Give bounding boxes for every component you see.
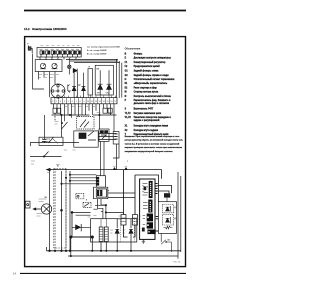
switch box S4 xyxy=(83,202,91,207)
fuse F xyxy=(29,46,33,54)
pin strip 1 xyxy=(149,181,152,197)
svg-text:Дистанция контроля аппаратуры: Дистанция контроля аппаратуры xyxy=(134,58,171,60)
switch box S5 xyxy=(76,194,84,199)
svg-text:2: 2 xyxy=(56,101,57,103)
svg-text:Предохранители цепей: Предохранители цепей xyxy=(134,65,161,68)
connector S2 xyxy=(103,108,107,113)
svg-text:VT2: VT2 xyxy=(106,93,109,95)
diode VD7 xyxy=(73,69,77,73)
svg-text:Д2: Д2 xyxy=(78,85,80,87)
svg-text:Задний фонарь справа и сзади: Задний фонарь справа и сзади xyxy=(134,74,170,77)
schematic frame xyxy=(25,37,186,267)
svg-text:Внимание! При переключении кле: Внимание! При переключении клемм стартер… xyxy=(125,136,180,138)
note paragraph xyxy=(125,136,184,153)
svg-text:М: М xyxy=(125,92,127,94)
horn left xyxy=(25,201,30,208)
svg-text:11: 11 xyxy=(91,101,93,103)
ground bus xyxy=(70,236,94,238)
lamp drop xyxy=(77,73,79,98)
diode VD4 xyxy=(82,87,86,91)
svg-text:Обозначения: Обозначения xyxy=(125,48,141,51)
transistor VT3 xyxy=(76,224,82,231)
wire v K4 down xyxy=(113,144,119,170)
relay box K2 xyxy=(74,131,98,147)
ground xyxy=(142,239,145,243)
svg-text:7: 7 xyxy=(76,101,77,103)
svg-text:дальнего света фар и сигналов: дальнего света фар и сигналов xyxy=(134,102,170,105)
svg-text:Д1: Д1 xyxy=(174,207,176,209)
wire v right 1 xyxy=(177,172,179,259)
svg-text:8: 8 xyxy=(80,101,81,103)
svg-text:Включатель Р477: Включатель Р477 xyxy=(134,108,154,111)
wires K2 to right xyxy=(98,134,116,140)
bottom rule xyxy=(20,272,186,274)
right detail assembly xyxy=(140,179,156,239)
bundle terminals xyxy=(49,250,51,252)
svg-text:А см. схему 1600/8: А см. схему 1600/8 xyxy=(87,49,107,52)
gauge P1 xyxy=(40,63,45,68)
link wire A xyxy=(158,186,172,194)
svg-text:Д2: Д2 xyxy=(174,218,176,220)
svg-text:Реле стартера и фар: Реле стартера и фар xyxy=(134,87,158,90)
wire v right 2 xyxy=(180,176,182,252)
svg-text:12: 12 xyxy=(95,101,97,103)
pin strip 2 xyxy=(149,200,152,212)
svg-text:Колодка жгута задняя: Колодка жгута задняя xyxy=(134,130,159,132)
pin labels X4 xyxy=(142,184,148,196)
gauge box B xyxy=(35,60,62,72)
link wire B xyxy=(158,191,169,193)
bundle dashed box xyxy=(54,169,66,249)
wire h5 xyxy=(106,211,124,213)
svg-text:Ж: Ж xyxy=(57,166,59,168)
wire v4 xyxy=(71,212,73,237)
relay box K3 xyxy=(99,129,109,141)
diode box D1 xyxy=(163,205,174,213)
svg-text:см. схему переключателей 1600: см. схему переключателей 1600 xyxy=(87,45,121,48)
svg-text:вариант проверки выполнять тол: вариант проверки выполнять только при вы… xyxy=(125,147,183,149)
relay K6 nested box xyxy=(94,187,108,199)
top rule xyxy=(24,10,186,12)
lamp H1 xyxy=(68,65,71,68)
svg-text:Рис. 14: Рис. 14 xyxy=(174,262,182,264)
terminal strip X1 xyxy=(51,98,117,104)
ignition unit box xyxy=(91,219,137,242)
component stubs to bus xyxy=(71,238,131,256)
box B drops xyxy=(39,72,56,98)
switch Q1 xyxy=(62,122,68,129)
bus L2 xyxy=(68,255,178,257)
svg-text:13: 13 xyxy=(99,101,101,103)
relay core xyxy=(97,190,102,196)
svg-text:«Минусовый» переключатель: «Минусовый» переключатель xyxy=(134,82,168,85)
ignition coil T1 xyxy=(99,227,103,242)
svg-text:6: 6 xyxy=(72,101,73,103)
svg-text:Задний фонарь слева: Задний фонарь слева xyxy=(134,70,159,73)
wire h3 xyxy=(72,211,91,213)
capacitor C1 xyxy=(43,115,47,143)
wire to node w1 xyxy=(108,192,135,194)
svg-text:5: 5 xyxy=(68,101,69,103)
block 2 xyxy=(147,222,153,228)
switch unit box U1 xyxy=(95,65,113,95)
svg-text:тактов 4-х. В установке и монт: тактов 4-х. В установке и монтаже схемы … xyxy=(125,142,180,145)
svg-text:Указатели поворотов передние и: Указатели поворотов передние и xyxy=(134,117,172,119)
svg-text:3: 3 xyxy=(60,101,61,103)
pin numbers X1 xyxy=(52,101,116,103)
sub box U2 xyxy=(158,202,176,234)
svg-text:Стартер мотора пуска: Стартер мотора пуска xyxy=(134,92,159,94)
svg-text:4: 4 xyxy=(64,101,65,103)
svg-text:Фонарь: Фонарь xyxy=(134,52,143,55)
connector block X2 xyxy=(96,176,105,188)
fuse box A xyxy=(37,47,81,57)
box A drops xyxy=(40,57,76,60)
switch Q2 xyxy=(49,137,54,143)
svg-text:задние с регулировкой: задние с регулировкой xyxy=(134,119,160,122)
svg-text:1: 1 xyxy=(52,101,53,103)
svg-text:VT1: VT1 xyxy=(97,93,100,95)
svg-text:ратора рукоятку убрать, на кле: ратора рукоятку убрать, на клеммной коло… xyxy=(125,139,184,142)
wire v K3 down xyxy=(101,141,105,175)
rotor arm xyxy=(68,85,70,93)
junction dots bundle xyxy=(49,169,51,171)
transistor VT1 xyxy=(98,84,103,89)
wire to node w2 xyxy=(108,197,135,199)
wire stubs right of X4 xyxy=(155,184,158,232)
fuses in box A xyxy=(39,49,80,57)
switch Q4 xyxy=(44,152,49,157)
nested corner wires xyxy=(95,205,106,218)
svg-text:14: 14 xyxy=(103,101,105,103)
wire h4 xyxy=(30,156,62,158)
svg-text:В см. схему 1600/7: В см. схему 1600/7 xyxy=(87,53,107,55)
switch Q3 xyxy=(161,233,171,244)
svg-text:9: 9 xyxy=(83,101,84,103)
wire node j1 xyxy=(71,212,73,214)
relay box K1 xyxy=(39,137,63,145)
strip top stubs xyxy=(57,95,116,98)
svg-text:17: 17 xyxy=(114,101,116,103)
wire bus to right xyxy=(66,59,120,62)
relay bar K5 xyxy=(164,193,170,197)
svg-text:16: 16 xyxy=(110,101,112,103)
diode VD8 xyxy=(115,219,119,242)
motor M1 xyxy=(41,204,51,214)
switch box S3 xyxy=(77,117,94,129)
svg-text:Д1: Д1 xyxy=(69,91,71,93)
svg-text:Отличительный сигнал торможени: Отличительный сигнал торможения xyxy=(134,78,175,81)
svg-text:Коммутационный регулятор: Коммутационный регулятор xyxy=(134,61,166,64)
distributor xyxy=(51,84,65,98)
main link wire xyxy=(49,170,162,179)
wire v-left detail 2 xyxy=(133,175,135,237)
node A xyxy=(61,209,63,211)
gauge P2 xyxy=(52,63,57,68)
wire h1 xyxy=(52,114,117,116)
lamp box E1 xyxy=(121,215,126,226)
junction a xyxy=(113,168,115,170)
connector S1 xyxy=(53,108,57,113)
svg-text:Переключатель фар, ближнего и: Переключатель фар, ближнего и xyxy=(134,99,171,102)
wire bundle verticals xyxy=(49,170,51,251)
block 3 xyxy=(148,230,156,235)
lamp box E2 xyxy=(133,215,138,226)
transistor VT2 xyxy=(107,84,112,89)
svg-text:Катушка зажигания цепи: Катушка зажигания цепи xyxy=(134,113,162,115)
legend rows xyxy=(125,52,175,136)
svg-text:напряжении аккумуляторной бата: напряжении аккумуляторной батареи и кноп… xyxy=(125,150,174,153)
svg-text:V1,V2: V1,V2 xyxy=(125,117,132,119)
wire v-left detail 1 xyxy=(124,170,128,237)
arrester FV1 xyxy=(129,219,133,242)
bus L1 xyxy=(47,250,181,252)
connector box X4 xyxy=(140,179,155,239)
top-right see-also notes xyxy=(87,45,121,55)
strip drops xyxy=(54,104,115,132)
diode box D2 xyxy=(163,215,174,225)
svg-text:Колодка жгута передняя левая: Колодка жгута передняя левая xyxy=(134,126,169,128)
wire v-left xyxy=(31,54,45,147)
svg-text:15: 15 xyxy=(107,101,109,103)
cluster drop xyxy=(93,199,105,210)
wire h2 xyxy=(30,142,79,144)
wire drops right xyxy=(117,59,122,98)
svg-text:Контроль выключателей и блока: Контроль выключателей и блока xyxy=(134,95,172,98)
junction b xyxy=(125,168,127,170)
resistor box R1 xyxy=(88,69,93,95)
svg-text:14.2 Электросхема 1600/2000: 14.2 Электросхема 1600/2000 xyxy=(24,27,67,31)
detail labels xyxy=(127,161,177,242)
box K4 xyxy=(113,132,119,144)
block 1 xyxy=(147,214,153,222)
resistor R2 xyxy=(163,226,172,229)
svg-text:Т1,Т2: Т1,Т2 xyxy=(125,113,132,115)
svg-text:М1: М1 xyxy=(45,197,48,199)
wires bundle to X2 xyxy=(62,175,97,184)
component value labels xyxy=(31,46,141,233)
link wire 2 xyxy=(135,175,159,202)
diode VD3 xyxy=(72,87,76,91)
svg-text:10: 10 xyxy=(87,101,89,103)
pin dots X4 xyxy=(147,183,151,233)
